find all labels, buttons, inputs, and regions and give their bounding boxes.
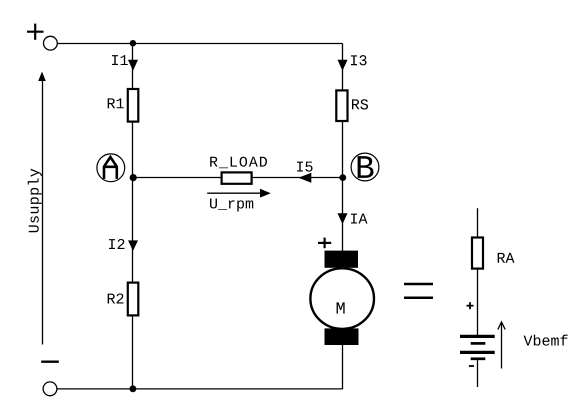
wire bottom horizontal — [57, 388, 343, 390]
wire equivalent bottom stub — [477, 360, 479, 387]
wire right vertical mid — [342, 121, 344, 178]
label RS — [352, 99, 368, 109]
node A — [97, 154, 125, 182]
resistor R1 — [128, 89, 139, 122]
wire middle horizontal — [133, 177, 343, 179]
battery cell 2 long plate — [460, 351, 495, 354]
current arrow I1 — [128, 60, 138, 71]
label R1 — [108, 98, 124, 108]
label I3 — [351, 55, 367, 65]
label I1 — [112, 55, 128, 65]
label R2 — [108, 293, 124, 303]
junction top — [130, 40, 136, 46]
equivalence sign — [404, 284, 433, 298]
battery cell 1 long plate — [460, 335, 495, 338]
label Usupply — [28, 169, 42, 233]
terminal (bottom supply) — [43, 382, 57, 396]
wire motor to bottom — [342, 345, 344, 390]
junction node A — [130, 174, 137, 181]
motor brush bottom — [325, 328, 359, 345]
label U_rpm — [210, 199, 253, 212]
junction bottom — [130, 385, 137, 392]
label Vbemf — [524, 335, 568, 346]
wire right vertical to motor — [342, 178, 344, 252]
label plus (supply +) — [27, 24, 44, 40]
battery cell 2 short plate — [471, 357, 486, 360]
label minus (battery -) — [469, 365, 474, 367]
battery cell 1 short plate — [471, 342, 486, 345]
wire right vertical upper — [342, 44, 344, 91]
resistor RS — [336, 90, 347, 121]
label R_LOAD — [210, 157, 267, 169]
current arrow I3 — [338, 60, 348, 71]
current arrow IA — [338, 213, 348, 224]
label plus (motor +) — [318, 238, 331, 249]
wire equivalent top stub — [477, 208, 479, 237]
wire top horizontal — [57, 43, 342, 45]
label plus (battery +) — [467, 302, 474, 309]
voltage arrow Usupply — [38, 72, 46, 345]
resistor RA — [472, 238, 483, 269]
wire left vertical lower — [132, 178, 134, 283]
motor body M — [310, 268, 374, 329]
label IA — [351, 214, 368, 224]
wire left vertical bottom — [132, 315, 134, 389]
motor brush top — [325, 251, 359, 268]
node B — [351, 153, 379, 181]
current arrow I2 — [128, 240, 138, 251]
wire left vertical mid — [132, 122, 134, 178]
terminal (top supply) — [44, 36, 58, 50]
wire left vertical upper — [132, 44, 134, 90]
junction node B — [339, 174, 346, 181]
wire equivalent mid — [477, 269, 479, 335]
label I2 — [109, 239, 124, 249]
label I5 — [297, 162, 313, 172]
voltage arrow Vbemf — [498, 322, 505, 369]
label M — [337, 302, 345, 313]
arrow U_rpm — [207, 189, 271, 198]
label minus (supply -) — [41, 361, 59, 363]
label RA — [498, 253, 515, 263]
resistor R2 — [128, 283, 139, 316]
current arrow I5 — [298, 173, 311, 183]
resistor R_LOAD — [222, 172, 252, 183]
